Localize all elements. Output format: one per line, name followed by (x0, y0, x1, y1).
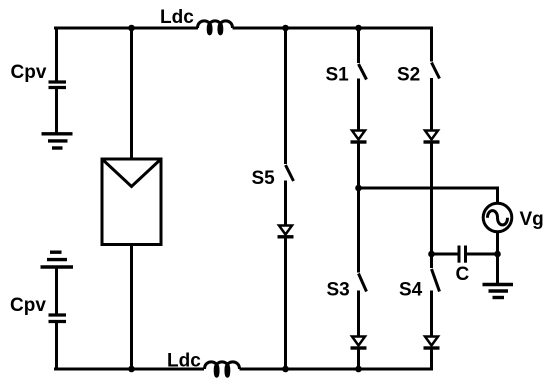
wire PV panel to bottom rail (130, 245, 133, 370)
diode D1 cathode bar (351, 140, 367, 143)
capacitor Cpv (upper) plates (49, 82, 67, 88)
wire ground to capacitor Cpv (lower) (55, 267, 58, 315)
ground (lower left, inverted) (41, 252, 74, 267)
ground (upper left) (42, 134, 73, 148)
diode D5 cathode bar (278, 235, 294, 238)
wire switch S3 to diode D3 (357, 291, 360, 337)
wire bottom DC rail right segment with corner into S4 branch (240, 348, 432, 369)
PV panel chevron (102, 159, 161, 187)
svg-text:Ldc: Ldc (160, 7, 194, 28)
AC source Vg circle (483, 203, 512, 232)
capacitor Cpv (lower) plates (49, 315, 67, 322)
svg-text:Cpv: Cpv (11, 62, 47, 83)
svg-text:S5: S5 (252, 168, 276, 189)
switch S4 blade (432, 269, 440, 292)
wire top DC rail right segment with corner into S2 branch (233, 28, 432, 62)
wire capacitor Cpv (upper) to ground (55, 88, 58, 134)
PV panel body (102, 159, 161, 245)
svg-text:S2: S2 (397, 65, 420, 86)
wire node S4 branch to capacitor C (432, 253, 460, 256)
wire capacitor Cpv (lower) to bottom rail (55, 322, 58, 370)
junction dot top rail / PV (128, 25, 135, 32)
svg-text:Ldc: Ldc (167, 351, 201, 372)
diode D2 cathode bar (424, 140, 440, 143)
wire top rail to PV panel (130, 28, 133, 159)
switch S1 blade (359, 64, 367, 80)
wire diode D2 down through mid wire to node at capacitor C (430, 142, 433, 268)
switch S2 blade (432, 63, 440, 79)
diode D1 triangle (352, 131, 365, 140)
wire switch S1 to diode D1 (357, 79, 360, 131)
capacitor C plates (459, 246, 466, 263)
junction dot bottom rail / S5 (282, 366, 289, 373)
diode D3 cathode bar (351, 346, 367, 349)
svg-text:S1: S1 (326, 65, 350, 86)
switch S5 blade (286, 165, 294, 181)
inductor Ldc (bottom) coil (205, 362, 240, 376)
wire source Vg to ground (right) (496, 232, 499, 283)
wire top DC rail left segment (54, 27, 198, 30)
wire bottom DC rail left segment (54, 368, 204, 371)
wire switch S4 to diode D4 (430, 291, 433, 337)
wire diode D1 to mid node and to switch S3 (357, 142, 360, 273)
wire top rail to switch S5 (284, 28, 287, 164)
diode D4 triangle (425, 337, 438, 346)
AC source Vg sine wave (488, 211, 508, 225)
wire capacitor C to Vg branch (466, 253, 498, 256)
junction dot S4 branch / capacitor C (428, 251, 435, 258)
svg-text:Vg: Vg (520, 209, 544, 230)
wire diode D5 to bottom rail (284, 237, 287, 369)
junction dot bottom rail / S3 (355, 366, 362, 373)
diode D4 cathode bar (424, 346, 440, 349)
svg-text:Cpv: Cpv (10, 295, 46, 316)
junction dot mid node / S1-S3 (355, 185, 362, 192)
ground (right) (483, 285, 514, 298)
wire switch S2 to diode D2 (430, 78, 433, 131)
diode D5 triangle (279, 226, 292, 235)
wire diode D3 to bottom rail (357, 348, 360, 369)
wire top rail to capacitor Cpv (upper) (55, 28, 58, 82)
junction dot top rail / S1 (355, 25, 362, 32)
junction dot Vg branch / capacitor C (494, 251, 501, 258)
wire mid node to source Vg (359, 188, 498, 203)
wire top rail to switch S1 (357, 28, 360, 63)
switch S3 blade (359, 274, 367, 292)
diode D2 triangle (425, 131, 438, 140)
junction dot bottom rail / PV (128, 366, 135, 373)
junction dot top rail / S5 (282, 25, 289, 32)
svg-text:S3: S3 (327, 280, 350, 301)
svg-text:C: C (456, 264, 470, 285)
diode D3 triangle (352, 337, 365, 346)
svg-text:S4: S4 (399, 280, 423, 301)
wire switch S5 to diode D5 (284, 181, 287, 226)
inductor Ldc (top) coil (198, 21, 233, 34)
